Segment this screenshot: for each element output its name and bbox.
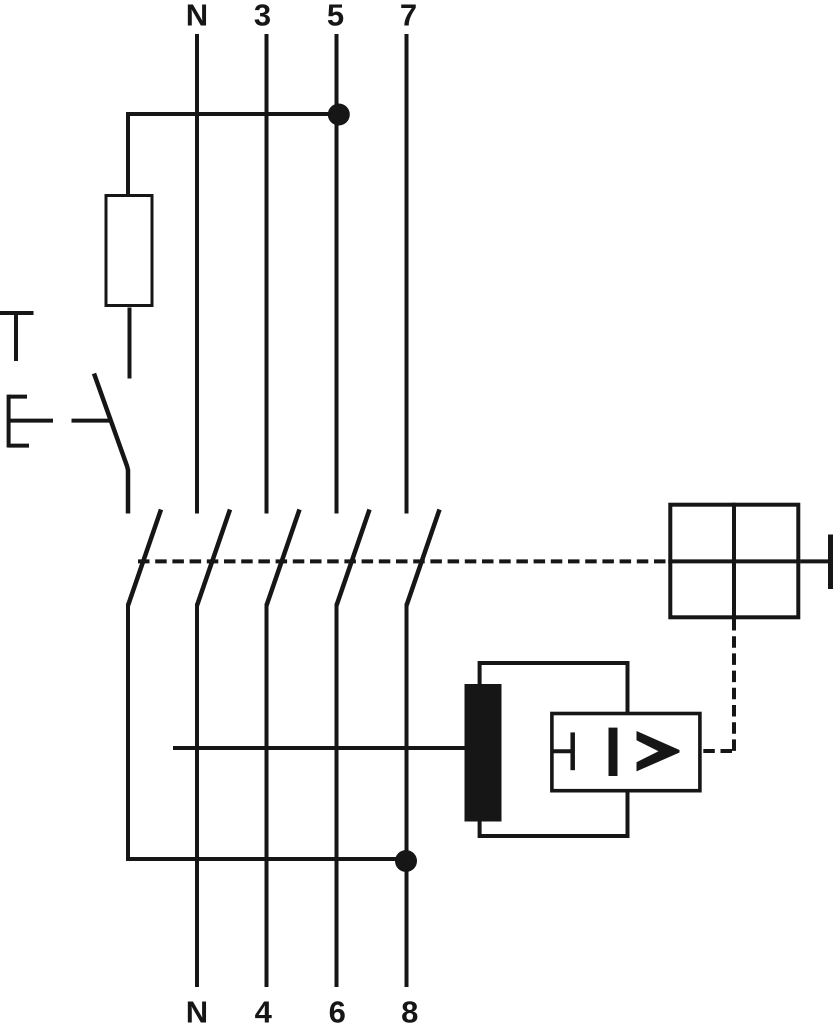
svg-text:7: 7 <box>400 0 417 33</box>
svg-text:3: 3 <box>254 0 271 33</box>
svg-text:N: N <box>186 0 208 33</box>
svg-text:4: 4 <box>255 995 273 1024</box>
svg-text:6: 6 <box>329 995 346 1024</box>
svg-text:5: 5 <box>327 0 344 33</box>
svg-text:N: N <box>186 995 208 1024</box>
svg-text:8: 8 <box>401 995 418 1024</box>
